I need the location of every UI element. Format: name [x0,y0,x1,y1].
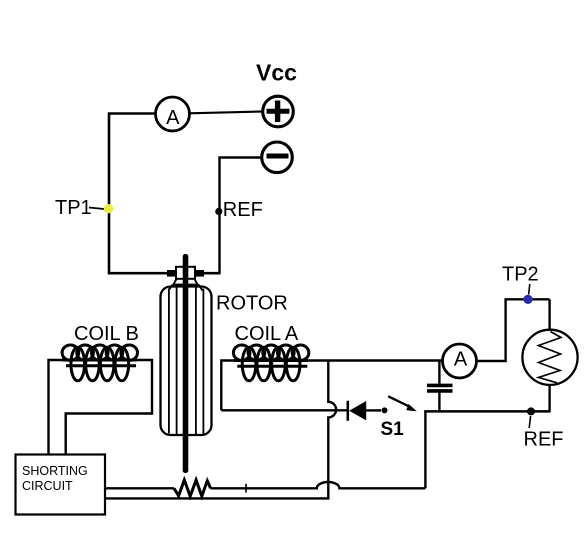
rotor pole line 1 [168,289,170,434]
capacitor C1 bottom lead [438,393,440,412]
svg-text:CIRCUIT: CIRCUIT [22,479,73,493]
TP2 leader tick [529,284,530,295]
rotor body [161,287,212,436]
svg-text:ROTOR: ROTOR [216,293,288,315]
rotor pole line 2 [176,288,178,435]
node REF (right) [527,407,535,415]
svg-text:Vcc: Vcc [256,60,297,86]
node REF (left) [215,208,222,215]
wire minus terminal to REF vertical [220,158,262,274]
wire diode anode horizontal [221,409,347,411]
wire vertical from COIL A junction down with hop over diode wire [105,361,336,499]
rotor shaft [183,254,189,473]
wire TP1 vertical (left rail) [108,114,111,274]
Vcc minus terminal [262,142,293,173]
diode D1 cathode bar [346,401,349,421]
svg-text:COIL A: COIL A [235,323,299,345]
shorting circuit box [16,455,106,515]
wire top-left horizontal to ammeter A1 [108,112,156,115]
rotor pole line 4 [202,289,204,434]
svg-text:SHORTING: SHORTING [22,464,88,478]
wire right brush [203,272,221,275]
resistor R1 [174,480,211,496]
wire resistor rail from shorting circuit with hop over vertical [105,482,425,488]
inductor COIL A [233,345,309,381]
svg-text:S1: S1 [381,419,405,440]
REF leader tick [529,416,530,428]
capacitor C1 bottom plate [427,389,453,393]
switch S1 left contact [382,407,388,413]
rotor brush right [195,270,204,277]
svg-text:A: A [166,107,180,129]
photocell PC1 [522,330,577,385]
node TP1 (yellow) [104,204,113,213]
wire TP2 rail down to photocell [548,299,550,331]
inductor COIL B [62,345,138,381]
svg-text:A: A [454,348,468,370]
svg-text:COIL B: COIL B [74,323,139,345]
wire photocell bottom lead [548,385,550,412]
wire left brush [108,272,168,275]
svg-text:REF: REF [524,429,564,451]
wire COIL B left lead down to shorting circuit [49,360,63,455]
capacitor C1 top plate [427,384,453,388]
rotor slip-ring box [176,267,195,279]
rotor pole line 3 [195,288,197,435]
wire diode to switch [366,409,381,411]
ammeter A1 [156,97,190,131]
ammeter A2 [443,344,477,378]
capacitor C1 top lead [438,361,440,384]
node TP2 (blue) [523,295,532,304]
rotor brush left [167,270,176,277]
svg-text:REF: REF [223,199,263,221]
wire vertical right contact down to resistor rail [424,411,426,488]
svg-text:TP1: TP1 [55,197,92,219]
diode D1 triangle [349,401,366,420]
Vcc plus terminal [263,96,294,127]
tick mark on resistor rail [245,484,247,493]
wire COIL A left lead down [221,361,233,411]
TP1 leader dash [89,208,104,210]
wire A2 to TP2 rail [476,299,550,361]
switch S1 lever arrowhead [406,404,417,411]
wire COIL A right lead to ammeter A2 [308,359,443,361]
wire switch right contact / bottom rail to photocell [424,410,550,413]
switch S1 lever [388,396,409,406]
wire COIL B right lead step down [66,360,152,455]
rotor neck [168,279,202,291]
wire A1 to Vcc plus terminal [189,112,263,114]
svg-text:TP2: TP2 [502,264,539,286]
